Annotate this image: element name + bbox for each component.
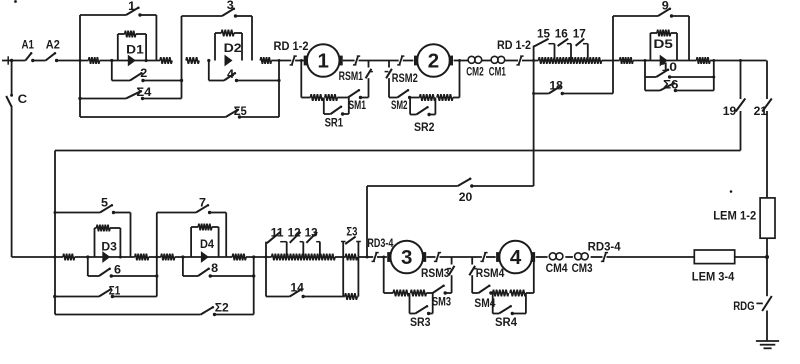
switch SM3: [432, 284, 452, 308]
svg-text:RD3-4: RD3-4: [367, 236, 393, 250]
motor 1: [304, 44, 343, 77]
svg-text:9: 9: [662, 0, 669, 12]
svg-text:6: 6: [114, 263, 121, 277]
svg-text:Σ1: Σ1: [109, 284, 121, 298]
contact RD3-4 (left): [367, 236, 393, 262]
resistor (bottom main, 4th): [232, 254, 246, 261]
wire: [295, 60, 306, 62]
switch SR4 loop: [493, 293, 526, 329]
node: D2 left junction: [207, 59, 210, 62]
switch Σ5 branch: [80, 104, 279, 119]
wire: [359, 60, 399, 62]
wire: vertical at 533.6 (main to wire 20): [532, 61, 535, 187]
contact RD 1-2 (right): [497, 38, 531, 65]
resistor (SM4 branch, 2nd): [510, 290, 534, 297]
switch SM2: [389, 89, 411, 112]
svg-text:A1: A1: [22, 38, 35, 52]
wire: [735, 256, 767, 258]
wire: [403, 60, 414, 62]
inductor CM3: [572, 253, 593, 275]
switch 18: [534, 78, 613, 95]
wire: vertical from wire-20 to bottom main: [366, 186, 368, 257]
svg-text:SR2: SR2: [414, 120, 435, 134]
switch 9 (top bypass of D5): [613, 0, 689, 60]
svg-text:14: 14: [290, 280, 304, 294]
tap bar 2: [302, 242, 304, 257]
contact RD 1-2 (left): [274, 39, 309, 65]
switch SR1 loop: [324, 98, 349, 130]
svg-text:SR1: SR1: [325, 116, 344, 130]
switch SR2 loop: [410, 98, 435, 134]
svg-text:D2: D2: [224, 41, 242, 55]
resistor (SM1 branch, 1st): [301, 94, 323, 101]
svg-text:CM3: CM3: [572, 261, 593, 275]
svg-text:RD 1-2: RD 1-2: [497, 38, 531, 52]
wire: [440, 256, 482, 258]
switch 21 on vertical: [754, 61, 772, 198]
wire: drop to C: [10, 61, 13, 97]
svg-text:Σ3: Σ3: [346, 224, 357, 238]
svg-text:1: 1: [317, 50, 328, 73]
resistor (bottom main, 1st): [63, 254, 75, 261]
wire: left vertical of bottom group (150 to Σ2): [54, 151, 56, 315]
diode D3: [101, 240, 117, 263]
wire: vertical joining main, 8 and Σ2: [252, 255, 255, 314]
motor 2: [414, 44, 453, 77]
switch SM4: [472, 284, 495, 310]
wire: C vertical down to bottom row: [11, 107, 13, 257]
contact RDG: [733, 257, 772, 313]
contact RD3-4 (right): [588, 239, 621, 261]
wire: [481, 60, 491, 62]
wire: SM1 branch left vertical: [300, 61, 302, 98]
node: D4 left junction: [181, 255, 184, 258]
resistor (SM3 branch, 2nd): [411, 290, 433, 297]
switch 13: [305, 226, 320, 243]
node: D3 left junction: [86, 255, 89, 258]
resistor LEM 1-2: [713, 198, 775, 238]
tap bar 1: [286, 242, 288, 257]
switch C: [6, 92, 27, 107]
wire: [607, 256, 695, 258]
contact RSM4 on vertical: [469, 257, 504, 293]
wire: [271, 60, 291, 62]
wire: [335, 256, 346, 258]
svg-text:Σ2: Σ2: [215, 300, 229, 314]
wire: [633, 59, 650, 62]
svg-text:11: 11: [271, 226, 284, 240]
switch SR3 loop: [410, 293, 433, 329]
svg-text:SM3: SM3: [432, 294, 451, 308]
svg-text:3: 3: [401, 246, 412, 269]
wire: [565, 256, 573, 258]
svg-text:LEM 3-4: LEM 3-4: [692, 270, 735, 284]
svg-text:A2: A2: [46, 38, 60, 52]
resistor (main, after D2): [260, 57, 271, 64]
switch 7 (top bypass of D4): [157, 195, 226, 257]
wire: [75, 256, 135, 258]
contact RSM1 on vertical: [339, 61, 373, 98]
switch 3 (top bypass of D2): [182, 0, 253, 61]
tap bar 2: [570, 44, 572, 61]
svg-text:SM1: SM1: [349, 98, 367, 112]
switch 6 (below D3): [88, 257, 157, 278]
tap bar 3: [587, 44, 589, 61]
resistor (main, before D1): [89, 57, 100, 64]
wire: vertical joining main, 4 and Σ5: [277, 59, 280, 117]
switch 1 (top bypass of D1): [80, 0, 156, 61]
wire: [343, 60, 355, 62]
diode D2: [224, 41, 242, 66]
inductor CM1: [489, 56, 506, 78]
svg-text:2: 2: [140, 66, 147, 80]
ground: [756, 341, 779, 348]
svg-text:12: 12: [288, 226, 301, 240]
svg-text:LEM 1-2: LEM 1-2: [713, 209, 756, 223]
switch 14 branch: [266, 257, 343, 298]
svg-text:C: C: [18, 92, 28, 106]
node: D3 right junction: [119, 256, 122, 259]
switch 5 (top bypass of D3): [54, 195, 131, 257]
svg-text:Σ5: Σ5: [234, 104, 247, 118]
resistor (main, before D5): [620, 57, 633, 64]
tap bar 1: [554, 44, 556, 61]
svg-text:RD 1-2: RD 1-2: [274, 39, 309, 53]
switch 12: [288, 226, 304, 243]
svg-text:RD3-4: RD3-4: [588, 239, 621, 253]
wire: [522, 59, 539, 62]
svg-text:D3: D3: [101, 240, 117, 254]
diode D5: [653, 37, 673, 66]
wire: SM3 branch left vertical: [383, 257, 385, 293]
diode D1: [126, 43, 144, 67]
wire: [602, 60, 620, 62]
resistor (SM4 branch, 1st): [492, 290, 509, 297]
resistor chain (15-17 sections): [539, 57, 602, 64]
switch 2 (below D1): [112, 61, 182, 83]
switch Σ6 branch: [645, 77, 714, 92]
resistor LEM 3-4: [692, 250, 735, 284]
wire (through D5 bottom): [650, 60, 677, 62]
svg-text:RSM3: RSM3: [421, 266, 450, 280]
switch 20: [458, 177, 474, 203]
node A (junction of A1 line and C branch): [10, 59, 13, 62]
switch 16: [555, 26, 571, 46]
wire: [486, 256, 496, 258]
svg-text:21: 21: [754, 104, 768, 118]
tap bar left (at 266): [265, 242, 267, 257]
tap bar left (at 533.6): [533, 46, 535, 61]
resistor (SM3 branch, 1st): [384, 290, 409, 297]
wire: [100, 60, 161, 62]
resistor (SM2 branch, 2nd): [437, 94, 460, 101]
svg-text:13: 13: [305, 226, 318, 240]
contact after motor 3: [434, 252, 441, 262]
svg-text:RSM1: RSM1: [339, 69, 364, 83]
contact before motor 4: [480, 252, 487, 262]
svg-text:1: 1: [128, 0, 135, 13]
svg-text:CM2: CM2: [466, 65, 484, 79]
tap bar 3: [319, 242, 321, 257]
svg-text:18: 18: [549, 78, 563, 92]
svg-text:2: 2: [428, 50, 439, 73]
relay D1 box with resistor: [118, 31, 146, 61]
svg-text:SR3: SR3: [410, 315, 431, 329]
svg-text:Σ4: Σ4: [136, 85, 151, 99]
diode D4: [200, 237, 214, 263]
svg-text:4: 4: [510, 246, 522, 269]
svg-text:10: 10: [662, 60, 678, 74]
wire: supply terminal, main top line start: [2, 56, 25, 64]
wire: long return wire (y=150): [55, 150, 741, 152]
wire: vertical joining main, 10 and Σ6: [712, 61, 715, 91]
wire: [536, 256, 548, 258]
wire: LEM1-2 bottom to junction: [766, 238, 768, 257]
node: SM1 branch tap: [300, 59, 303, 62]
resistor (bottom main, 3rd): [161, 254, 175, 261]
switch 19 on vertical: [723, 61, 746, 151]
wire: to ground: [766, 311, 768, 342]
svg-text:15: 15: [537, 26, 550, 40]
wire: [426, 256, 435, 258]
relay D5 box with resistor: [650, 30, 677, 61]
resistor (main, after D5): [697, 57, 711, 64]
svg-text:CM4: CM4: [546, 261, 568, 275]
motor 3: [387, 241, 426, 274]
svg-text:16: 16: [555, 26, 568, 40]
switch Σ3: [345, 224, 357, 244]
resistor (SM1 branch, 2nd): [325, 94, 348, 101]
resistor (main, before D2): [186, 57, 199, 64]
switch 8 (below D4): [183, 257, 254, 278]
svg-text:5: 5: [101, 195, 108, 209]
contact RSM2 on vertical: [385, 61, 418, 98]
node: junction at LEM1-2 / LEM3-4 / RDG: [765, 255, 769, 259]
switch A2: [46, 38, 60, 63]
resistor (Σ3 block, bottom): [343, 293, 358, 300]
wire: [358, 256, 373, 259]
relay D3 box with resistor: [95, 225, 121, 257]
wire: [710, 59, 767, 62]
resistor (main, after D1): [160, 57, 172, 64]
wire: SM2 branch right vertical: [459, 61, 461, 98]
motor 4: [496, 241, 535, 274]
artifact mark top-left: [14, 0, 17, 3]
svg-text:D4: D4: [200, 237, 214, 251]
switch SM1: [348, 89, 369, 112]
wire: vertical joining 3-top, main, 2 and Σ4: [180, 16, 183, 99]
svg-text:8: 8: [211, 261, 218, 275]
wire: [677, 60, 697, 62]
switch 10 (below D5): [645, 60, 714, 79]
Σ3 block left vertical: [341, 242, 346, 297]
wire: D5 group left vertical (9 top to 18): [612, 16, 614, 94]
wire: wire with switch 20: [367, 185, 458, 187]
switch A1: [22, 38, 35, 63]
svg-text:RSM4: RSM4: [476, 266, 505, 280]
svg-text:7: 7: [199, 195, 206, 209]
resistor (SM2 branch, 1st): [411, 94, 436, 101]
wire: [149, 256, 233, 258]
switch Σ4 branch: [78, 85, 181, 100]
wire: [34, 60, 46, 62]
wire: [246, 256, 272, 259]
switch 4 (below D2): [209, 61, 279, 83]
contact after motor 1: [353, 56, 360, 66]
svg-text:4: 4: [227, 67, 234, 81]
resistor (Σ3 block, on main): [345, 254, 357, 261]
switch Σ2 branch: [55, 300, 254, 316]
svg-text:SM2: SM2: [391, 98, 408, 112]
svg-text:RDG: RDG: [733, 299, 755, 313]
wire: vertical joining 7-top, main, 6 and Σ1: [155, 213, 158, 297]
resistor chain (11-13 sections): [272, 254, 335, 261]
svg-text:SR4: SR4: [495, 315, 517, 329]
svg-text:CM1: CM1: [489, 65, 506, 79]
contact before motor 2: [397, 56, 404, 66]
wire: [454, 59, 469, 62]
node: D1 right junction: [145, 59, 148, 62]
relay D2 box with resistor: [215, 30, 242, 61]
node: junction on main line: [79, 59, 82, 62]
relay D4 box with resistor: [191, 224, 219, 257]
switch 11: [267, 226, 287, 244]
svg-text:17: 17: [573, 26, 586, 40]
contact RSM3 on vertical: [421, 257, 455, 293]
wire: bottom main line left: [12, 256, 63, 259]
switch 17: [573, 26, 588, 45]
Σ3 block right vertical: [356, 242, 361, 297]
svg-text:3: 3: [227, 0, 234, 12]
svg-text:D1: D1: [126, 43, 144, 57]
wire: [58, 60, 89, 62]
wire: [473, 185, 534, 187]
svg-text:D5: D5: [653, 37, 673, 51]
svg-text:20: 20: [459, 190, 473, 204]
wire: SM4 branch right vertical: [533, 257, 535, 293]
wire: [377, 256, 387, 259]
wire: [505, 60, 518, 62]
switch 15: [534, 26, 554, 46]
switch Σ1 branch: [53, 284, 157, 299]
svg-text:19: 19: [723, 104, 737, 118]
svg-text:RSM2: RSM2: [392, 71, 418, 85]
wire: D1 group left vertical: [79, 15, 81, 117]
inductor CM2: [466, 56, 484, 78]
inductor CM4: [546, 253, 568, 275]
resistor (bottom main, 2nd): [135, 254, 149, 261]
svg-text:Σ6: Σ6: [663, 77, 679, 91]
artifact speck: [730, 190, 733, 193]
wire: [591, 256, 603, 258]
node: D1 left junction: [110, 59, 113, 62]
